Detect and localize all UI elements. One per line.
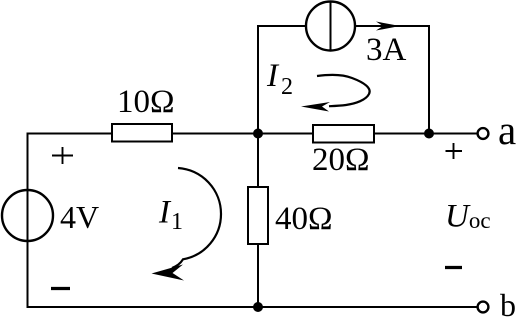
voltage source V1 4V [2, 190, 53, 241]
mesh arrow I2 head [301, 102, 330, 112]
mesh arrow I1 arc [172, 168, 221, 268]
resistor R 40ohm [248, 187, 268, 244]
wire main horizontal left (left rail to 10ohm) [28, 133, 113, 135]
wire middle vertical upper (node to 40ohm) [257, 134, 259, 188]
svg-text:4V: 4V [60, 199, 99, 235]
node junction bottom [253, 302, 263, 312]
svg-text:3A: 3A [366, 32, 407, 68]
node junction left (center node) [253, 129, 263, 139]
current source I 3A [306, 2, 355, 51]
polarity minus right [445, 266, 462, 269]
resistor R 20ohm [313, 125, 374, 143]
wire main horizontal right (20ohm to node) [374, 133, 429, 135]
mesh arrow I1 head [152, 265, 185, 281]
terminal a open circle [478, 128, 489, 139]
terminal b open circle [478, 302, 489, 313]
svg-text:b: b [500, 287, 516, 318]
wire top branch right segment [355, 25, 429, 27]
svg-text:a: a [498, 107, 516, 153]
svg-text:20Ω: 20Ω [312, 142, 370, 178]
wire bottom rail [28, 306, 478, 308]
wire middle vertical lower (40ohm to bottom rail) [257, 244, 259, 307]
wire left vertical through source and lower [27, 190, 29, 307]
svg-text:10Ω: 10Ω [117, 84, 175, 120]
polarity plus left [52, 147, 73, 164]
wire main horizontal middle (10ohm to 20ohm through node) [172, 133, 313, 135]
wire top-right vertical [428, 26, 430, 134]
wire left vertical upper [27, 134, 29, 191]
polarity plus right [446, 143, 463, 159]
wire top branch left segment [258, 25, 306, 27]
wire node to terminal a [429, 133, 478, 135]
polarity minus left [51, 287, 70, 290]
current direction arrow 3A [376, 22, 400, 31]
svg-text:40Ω: 40Ω [275, 201, 333, 237]
node junction right [424, 129, 434, 139]
resistor R 10ohm [112, 124, 172, 142]
mesh arrow I2 loop [317, 75, 370, 106]
wire top-left vertical (junction up to top branch) [257, 26, 259, 134]
